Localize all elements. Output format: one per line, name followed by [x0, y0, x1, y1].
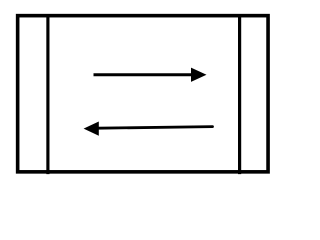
left plate (inner vertical line) — [46, 14, 49, 174]
right plate (inner vertical line) — [238, 14, 241, 174]
arrow left (bottom, return flow) — [84, 122, 213, 136]
arrow right (top, forward flow) — [94, 68, 207, 82]
outer rectangle (cell body) — [18, 16, 268, 172]
